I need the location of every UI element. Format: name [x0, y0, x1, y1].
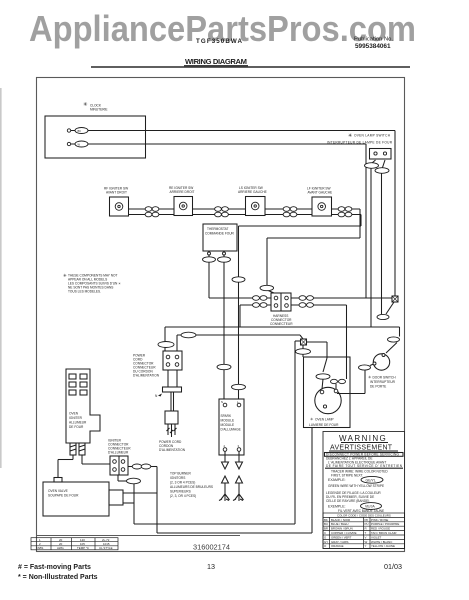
svg-text:INTERRUPTEUR DE LAMPE DE FOUR: INTERRUPTEUR DE LAMPE DE FOUR — [327, 141, 393, 145]
svg-text:PK: PK — [365, 518, 369, 522]
svg-text:✳: ✳ — [348, 133, 352, 139]
svg-text:VE/JA: VE/JA — [365, 505, 375, 509]
svg-text:MODULE: MODULE — [221, 423, 235, 427]
svg-text:BU: BU — [324, 522, 328, 526]
svg-text:ORANGE: ORANGE — [331, 544, 344, 548]
svg-text:EXEMPLE:: EXEMPLE: — [328, 504, 346, 508]
svg-text:OVEN LAMP: OVEN LAMP — [315, 418, 334, 422]
svg-text:YELLOW / JAUNE: YELLOW / JAUNE — [371, 544, 395, 548]
svg-text:WHITE / BLANC: WHITE / BLANC — [371, 540, 392, 544]
svg-text:CONNECTEUR: CONNECTEUR — [270, 322, 293, 326]
svg-text:PURPLE / POURPRE: PURPLE / POURPRE — [371, 522, 399, 526]
svg-text:Y: Y — [365, 544, 367, 548]
svg-text:AVANT DROIT: AVANT DROIT — [106, 191, 127, 195]
svg-text:LUMIERE DE FOUR: LUMIERE DE FOUR — [309, 423, 339, 427]
svg-text:(2, 3, OR 4 PCES): (2, 3, OR 4 PCES) — [170, 494, 196, 498]
svg-text:TAN / BRUN CLAIR: TAN / BRUN CLAIR — [371, 531, 396, 535]
svg-text:THERMOSTAT: THERMOSTAT — [207, 227, 229, 231]
svg-text:N: N — [221, 400, 223, 404]
svg-text:AWG: AWG — [57, 546, 65, 550]
svg-text:MODULE: MODULE — [221, 419, 235, 423]
svg-text:WARNING: WARNING — [339, 434, 387, 443]
svg-text:COMMANDE FOUR: COMMANDE FOUR — [205, 232, 235, 236]
svg-text:RED / ROUGE: RED / ROUGE — [371, 527, 390, 531]
svg-text:EXAMPLE:: EXAMPLE: — [328, 478, 346, 482]
svg-text:GRAY / GRIS: GRAY / GRIS — [331, 540, 348, 544]
svg-text:DOOR SWITCH: DOOR SWITCH — [373, 376, 397, 380]
svg-text:13: 13 — [207, 562, 215, 571]
svg-text:PU: PU — [365, 522, 369, 526]
svg-text:✳: ✳ — [63, 273, 67, 278]
svg-text:BK: BK — [78, 129, 82, 133]
svg-text:INTERRUPTEUR: INTERRUPTEUR — [370, 380, 396, 384]
svg-text:OVEN VALVE: OVEN VALVE — [48, 489, 68, 493]
svg-text:5995384061: 5995384061 — [355, 43, 391, 50]
svg-text:DE FAIRE TOUT SERVICE D' ENTRE: DE FAIRE TOUT SERVICE D' ENTRETIEN — [326, 464, 403, 468]
svg-text:T: T — [365, 531, 367, 535]
svg-text:IGNITER: IGNITER — [69, 416, 83, 420]
svg-text:Publication No.: Publication No. — [354, 37, 393, 43]
svg-text:D'ALIMENTATION: D'ALIMENTATION — [133, 374, 160, 378]
svg-text:ALLUMEURS DE BRULEURS: ALLUMEURS DE BRULEURS — [170, 485, 213, 489]
svg-text:AVERTISSEMENT: AVERTISSEMENT — [330, 445, 393, 452]
svg-text:FIL VERT AVEC BANDE JAUNE: FIL VERT AVEC BANDE JAUNE — [338, 509, 384, 513]
svg-text:ARRIERE GAUCHE: ARRIERE GAUCHE — [238, 190, 267, 194]
svg-text:SPARK: SPARK — [221, 414, 232, 418]
svg-text:BLUE / BLEU: BLUE / BLEU — [331, 522, 349, 526]
svg-text:316002174: 316002174 — [193, 543, 230, 552]
svg-text:BROWN / BRUN: BROWN / BRUN — [331, 527, 353, 531]
svg-text:ALLUMEUR: ALLUMEUR — [69, 421, 87, 425]
svg-text:GE/YL: GE/YL — [366, 478, 376, 482]
svg-text:D'ALLUMAGE: D'ALLUMAGE — [221, 428, 241, 432]
svg-text:PINK / ROSE: PINK / ROSE — [371, 518, 388, 522]
svg-text:DE FOUR: DE FOUR — [69, 425, 84, 429]
svg-text:AVANT GAUCHE: AVANT GAUCHE — [308, 191, 333, 195]
svg-text:OVEN LAMP SWITCH: OVEN LAMP SWITCH — [354, 134, 391, 138]
svg-text:TEMP °C: TEMP °C — [77, 546, 89, 550]
svg-text:D'ALIMENTATION: D'ALIMENTATION — [159, 448, 186, 452]
svg-text:DE PORTE: DE PORTE — [370, 385, 386, 389]
svg-text:COLOR CODE / CODE DES COULEURS: COLOR CODE / CODE DES COULEURS — [337, 513, 391, 517]
svg-text:* = Non-Illustrated Parts: * = Non-Illustrated Parts — [18, 574, 98, 581]
svg-text:V: V — [365, 535, 367, 539]
svg-text:SOUPAPE DE FOUR: SOUPAPE DE FOUR — [48, 494, 79, 498]
svg-text:FIRST, STRIPE NEXT.: FIRST, STRIPE NEXT. — [331, 473, 363, 477]
svg-text:COPPER / CUIVRE: COPPER / CUIVRE — [331, 531, 357, 535]
svg-text:OVEN: OVEN — [69, 412, 79, 416]
svg-text:BK: BK — [324, 518, 328, 522]
svg-text:IGNITORS: IGNITORS — [170, 476, 185, 480]
svg-text:W: W — [365, 540, 368, 544]
svg-text:GY: GY — [324, 540, 328, 544]
svg-text:UL STYLE: UL STYLE — [99, 546, 113, 550]
svg-text:✳: ✳ — [83, 101, 88, 108]
svg-text:TOP BURNER: TOP BURNER — [170, 472, 191, 476]
svg-text:MINUTERIE: MINUTERIE — [90, 108, 108, 112]
svg-text:GREEN WIRE WITH YELLOW STRIPE: GREEN WIRE WITH YELLOW STRIPE — [328, 484, 384, 488]
svg-text:SUPERIEURS: SUPERIEURS — [170, 490, 191, 494]
svg-text:TOUS LES MODELES.: TOUS LES MODELES. — [68, 290, 101, 294]
svg-text:BR: BR — [324, 527, 328, 531]
svg-text:WIRING DIAGRAM: WIRING DIAGRAM — [185, 57, 247, 66]
svg-text:CELLE DE RAYURE (BANDE): CELLE DE RAYURE (BANDE) — [326, 499, 369, 503]
svg-text:# = Fast-moving Parts: # = Fast-moving Parts — [18, 564, 91, 571]
svg-text:D'ALLUMEUR: D'ALLUMEUR — [108, 451, 129, 455]
svg-text:BLACK / NOIR: BLACK / NOIR — [331, 518, 350, 522]
svg-text:TGF350BWA: TGF350BWA — [196, 38, 243, 45]
svg-text:01/03: 01/03 — [384, 562, 402, 571]
svg-text:R: R — [365, 527, 367, 531]
svg-text:(2, 3 OR 4 PCES): (2, 3 OR 4 PCES) — [170, 481, 195, 485]
svg-text:ARRIERE DROIT: ARRIERE DROIT — [170, 190, 195, 194]
svg-text:C: C — [324, 531, 326, 535]
svg-text:TABS: TABS — [36, 546, 43, 550]
svg-text:VIOLET: VIOLET — [371, 535, 382, 539]
svg-text:GREEN / VERT: GREEN / VERT — [331, 535, 352, 539]
